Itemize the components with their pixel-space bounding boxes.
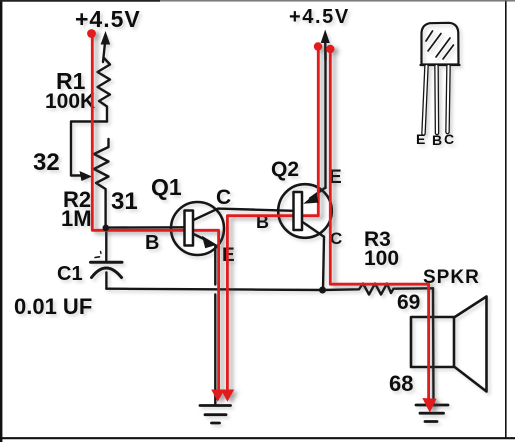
Q1 emitter diagonal (193, 234, 209, 242)
red arrowhead path 1 (211, 390, 224, 402)
svg-text:B: B (145, 232, 159, 254)
red arrowhead path 2 (221, 390, 234, 402)
TO-92 transistor package drawing (421, 23, 460, 65)
red test probe dot at right supply (outer) (326, 45, 334, 53)
ground right (416, 405, 448, 422)
bottom wire C1 to junction to R3 (106, 289, 322, 290)
potentiometer R2 (94, 139, 109, 228)
red path 1: left supply through R1 R2 to Q1 base and emitter to ground (92, 34, 218, 391)
svg-text:C: C (216, 186, 231, 209)
TO-92 legs E B C (424, 66, 449, 134)
svg-text:C: C (444, 131, 454, 147)
svg-text:+4.5V: +4.5V (289, 6, 350, 28)
Q2 collector diagonal (302, 222, 324, 237)
svg-text:SPKR: SPKR (423, 267, 480, 288)
red test probe dot at right supply (inner) (314, 42, 322, 50)
svg-text:Q1: Q1 (151, 174, 182, 200)
label R1 100K (45, 68, 95, 113)
wire node31 to Q1 base (106, 226, 184, 229)
svg-text:69: 69 (397, 291, 420, 314)
svg-text:E: E (416, 131, 425, 147)
resistor R3 (323, 284, 434, 295)
svg-text:Q2: Q2 (271, 158, 299, 181)
TO-92 leg labels E B C (416, 131, 454, 148)
supply arrow left (101, 31, 111, 62)
transistor Q1 circle (171, 202, 224, 255)
svg-text:100K: 100K (45, 90, 95, 113)
Q2 base bar (294, 192, 303, 230)
Q1 emitter vertical wire (break at bottom wire) (214, 246, 216, 404)
capacitor C1 (91, 252, 123, 289)
red highlighted current paths (87, 29, 437, 413)
junction node dot at Q2 collector / bottom wire (319, 287, 326, 294)
speaker horn (454, 297, 487, 392)
svg-text:1M: 1M (61, 206, 92, 231)
svg-text:31: 31 (111, 188, 138, 215)
red path 3: right supply through Q2 E-C, R3 and speaker to ground (330, 49, 428, 399)
svg-text:B: B (432, 132, 442, 148)
wiper arrowhead into R2 (80, 171, 93, 181)
ground center (200, 406, 231, 424)
transistor Q2 circle (278, 184, 332, 238)
speaker SPKR driver rectangle (411, 317, 454, 367)
Q1 base bar (185, 211, 194, 246)
junction node dot at node 31 (103, 225, 110, 232)
Q2 emitter vertical wire from supply (324, 47, 326, 188)
Q2 emitter arrowhead pointing into base bar (303, 193, 318, 204)
svg-text:32: 32 (33, 149, 60, 176)
wire down from R3 through speaker (432, 288, 435, 404)
red test probe dot at left supply (87, 29, 96, 38)
wire loop from R1 bottom to wiper of R2 (71, 122, 107, 176)
Q1 emitter arrowhead (202, 236, 217, 248)
supply arrow right (321, 30, 330, 61)
red arrowhead path 3 (422, 398, 436, 413)
wire node31 down to C1 (105, 228, 107, 262)
Q1 collector diagonal and wire to Q2 base (193, 209, 295, 221)
resistor R1 (98, 58, 111, 122)
Q2 collector vertical wire to junction (323, 237, 324, 290)
svg-text:C1: C1 (57, 263, 83, 285)
svg-text:68: 68 (389, 371, 413, 396)
svg-text:100: 100 (364, 247, 399, 270)
svg-text:0.01 UF: 0.01 UF (14, 294, 92, 319)
label R2 1M (61, 187, 92, 231)
label R3 100 (364, 228, 399, 270)
red path 2: right supply through Q2 E-B wire to Q1 collector and down to ground (227, 47, 318, 391)
Q2 emitter diagonal (310, 188, 326, 199)
svg-text:C: C (330, 229, 342, 248)
svg-text:+4.5V: +4.5V (75, 6, 141, 32)
